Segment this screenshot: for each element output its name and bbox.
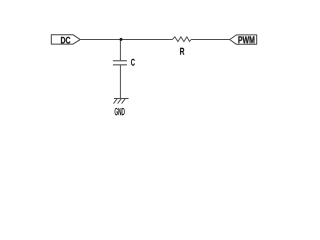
ground hatch slash 3	[122, 99, 126, 104]
DC input tag outline	[51, 35, 80, 44]
wire: junction node down to capacitor top plate	[119, 40, 121, 61]
ground symbol bar	[114, 98, 129, 100]
resistor label R	[180, 48, 184, 55]
capacitor label C	[131, 59, 135, 66]
capacitor C bottom plate	[113, 64, 127, 66]
wire: resistor to PWM tag tip	[191, 39, 230, 41]
ground label GND	[115, 108, 125, 115]
ground hatch slash 1	[114, 99, 118, 104]
resistor R zigzag	[172, 37, 191, 42]
DC label text	[61, 37, 70, 44]
ground hatch slash 2	[118, 99, 122, 104]
PWM label text	[238, 36, 254, 43]
wire: capacitor bottom plate down to ground	[119, 65, 121, 99]
capacitor C top plate	[113, 60, 127, 62]
wire: DC tag tip to resistor	[80, 39, 172, 41]
PWM output tag outline	[230, 35, 257, 44]
node junction dot	[120, 38, 123, 41]
